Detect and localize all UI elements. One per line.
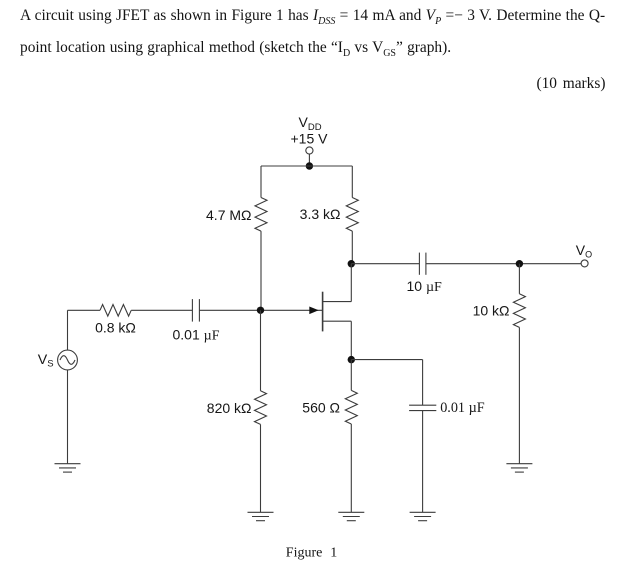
source Vs: [58, 350, 78, 370]
label VDD: [299, 114, 322, 133]
svg-text:820 kΩ: 820 kΩ: [207, 400, 252, 416]
wire R1 bottom to gate node: [260, 231, 262, 310]
wire RL bottom to ground: [518, 327, 520, 463]
node drain junction: [348, 260, 355, 267]
wire Vs to gate rail: [67, 310, 69, 350]
ground (Rs): [338, 512, 364, 520]
ground (Rgnd): [248, 512, 274, 520]
resistor 4.7 MΩ: [255, 198, 267, 232]
resistor 3.3 kΩ: [346, 198, 358, 232]
JFET drain lead: [323, 264, 352, 302]
wire Vs to ground: [67, 370, 69, 464]
label +15 V: [291, 131, 329, 147]
wire left rail down to R1: [260, 166, 262, 198]
label 560 Ω: [302, 400, 340, 416]
wire bypass branch down to cap: [422, 360, 424, 406]
node gate junction: [257, 307, 264, 314]
resistor 0.8 kΩ: [100, 305, 131, 317]
marks note: [536, 75, 605, 93]
JFET channel bar: [322, 292, 324, 332]
wire gate node to Rgnd: [260, 310, 262, 391]
wire output node to RL: [518, 264, 520, 294]
label 10 µF: [407, 278, 443, 295]
resistor 820 kΩ: [255, 391, 267, 425]
svg-text:+15 V: +15 V: [291, 131, 329, 147]
svg-text:3.3 kΩ: 3.3 kΩ: [300, 206, 341, 222]
wire source node to bypass branch: [351, 359, 422, 361]
node source junction: [348, 356, 355, 363]
capacitor 10 µF: [419, 253, 426, 275]
label Vo: [576, 242, 592, 260]
svg-text:VS: VS: [38, 352, 54, 369]
VDD terminal: [306, 147, 313, 154]
node VDD rail junction: [306, 162, 313, 169]
wire cap to gate: [199, 309, 322, 311]
problem statement line 1: [20, 7, 605, 27]
ground (Vs): [55, 464, 81, 472]
wire gate rail to Rg: [68, 309, 101, 311]
output terminal Vo: [581, 260, 588, 267]
wire bypass cap to ground: [422, 411, 424, 513]
svg-text:0.01 µF: 0.01 µF: [440, 400, 485, 416]
svg-text:0.8 kΩ: 0.8 kΩ: [95, 320, 136, 336]
wire top rail: [261, 165, 352, 167]
label 10 kΩ: [473, 302, 510, 318]
resistor 560 Ω: [345, 390, 357, 424]
label 0.01 µF (bypass): [440, 400, 485, 416]
wire Rgnd to ground: [260, 424, 262, 512]
wire cap to output terminal: [426, 263, 581, 265]
wire VDD terminal to rail: [308, 154, 310, 166]
JFET source lead: [323, 321, 352, 359]
caption Figure 1: [286, 545, 338, 560]
wire source node to Rs: [350, 360, 352, 391]
svg-text:Figure1: Figure1: [286, 545, 338, 560]
svg-text:0.01 µF: 0.01 µF: [173, 326, 220, 343]
resistor 10 kΩ: [513, 294, 525, 328]
wire R2 bottom to drain node: [351, 231, 353, 264]
label 0.01 µF (coupling): [173, 326, 220, 343]
label 820 kΩ: [207, 400, 252, 416]
label Vs: [38, 352, 54, 369]
svg-text:10 kΩ: 10 kΩ: [473, 302, 510, 318]
gate arrow: [309, 307, 318, 315]
svg-text:4.7 MΩ: 4.7 MΩ: [206, 207, 251, 223]
label 3.3 kΩ: [300, 206, 341, 222]
ground (bypass): [410, 512, 436, 520]
svg-text:VO: VO: [576, 242, 592, 260]
label 0.8 kΩ: [95, 320, 136, 336]
wire Rg to coupling cap: [131, 309, 192, 311]
wire drain node to coupling cap: [351, 263, 419, 265]
node output junction: [516, 260, 523, 267]
label 4.7 MΩ: [206, 207, 251, 223]
svg-text:10 µF: 10 µF: [407, 278, 443, 295]
wire Rs to ground: [350, 424, 352, 512]
wire right rail down to R2: [351, 166, 353, 198]
capacitor 0.01 µF (coupling): [192, 299, 199, 322]
capacitor 0.01 µF (bypass): [409, 405, 436, 410]
problem statement line 2: [20, 39, 451, 59]
ground (output): [506, 464, 532, 472]
svg-text:560 Ω: 560 Ω: [302, 400, 340, 416]
